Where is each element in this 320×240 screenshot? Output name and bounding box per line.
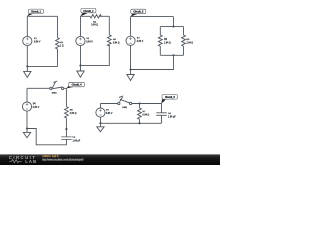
wire below V4 [26,111,28,128]
svg-text:Circuit_2: Circuit_2 [83,10,94,13]
ground C5 [97,123,104,131]
ground C1 [24,66,31,77]
label V4 [33,103,40,109]
resistor R2 [90,15,101,18]
wire top left C5 [100,103,117,105]
svg-text:0.84 Ω: 0.84 Ω [91,25,98,27]
resistor R7 [138,108,142,119]
voltage source V3 [126,36,135,45]
wire below C2 C5 [161,115,163,123]
label C2 [168,113,176,119]
svg-text:0.84 V: 0.84 V [137,41,144,43]
svg-text:0.84 Ω: 0.84 Ω [143,115,150,117]
resistor R6 [65,107,69,118]
node junction C4 [26,127,28,129]
wire top left C2 [80,15,90,17]
label R5 [186,39,193,44]
logo waveform [9,160,21,163]
svg-text:Circuit_1: Circuit_1 [31,11,42,14]
svg-text:0.84 V: 0.84 V [106,113,113,115]
svg-text:SW2: SW2 [122,107,128,109]
voltage source V1 [23,36,32,45]
tag Circuit_5 [161,95,177,104]
wire below V2 [79,46,81,66]
label R1 [60,42,64,48]
ground C3 [127,70,134,81]
voltage source V5 [96,108,105,117]
wire below R7 C5 [138,119,140,123]
voltage source V2 [76,36,85,45]
svg-text:0.84 Ω: 0.84 Ω [113,42,120,44]
node junction C3 [130,68,132,70]
voltage source V4 [22,102,31,111]
wire below V5 [99,117,101,123]
capacitor C2 [156,113,166,116]
label V5 [106,110,113,115]
wire top C1 [27,15,57,17]
wire bottom C3 [131,55,174,69]
wire stem top parallel C3 [172,17,174,27]
svg-text:0.84 Ω: 0.84 Ω [70,113,77,115]
wire top left C4 [27,87,50,89]
wire below V3 [130,45,132,69]
wire left upper C2 [79,16,81,36]
label R7 [143,111,150,117]
wire top C3 [131,16,174,18]
label C1 [73,136,81,142]
label V1 [34,38,41,43]
svg-text:Circuit_5: Circuit_5 [165,96,176,99]
wire left upper C1 [26,16,28,36]
wire bottom jog C4 [27,129,66,145]
switch SW1 [50,81,64,90]
node junction SW2/R7 C5 [138,102,140,104]
label V2 [86,38,93,43]
svg-text:1 Ω: 1 Ω [60,46,64,48]
resistor R5 [182,35,186,46]
label R6 [70,109,77,115]
ground C4 [23,129,30,138]
tag Circuit_3 [130,9,145,17]
node junction C5 [99,122,101,124]
svg-text:http://www.circuitlab.com/c/5p: http://www.circuitlab.com/c/5pwtukrbgbid… [42,158,84,161]
node R7 bottom C5 [138,122,140,124]
resistor R3 [107,35,111,46]
svg-text:0.84 V: 0.84 V [34,41,41,43]
label R3 [113,39,120,45]
capacitor C1 [61,137,71,140]
wire top right C4 [64,87,67,89]
node bottom parallel C3 [172,54,174,56]
switch SW2 [118,96,132,105]
wire bottom C5 [100,122,161,124]
resistor R4 [158,35,162,46]
node junction C1 [26,65,28,67]
wire left upper C4 [26,88,28,102]
wire C2 stem C5 [161,104,163,113]
svg-text:2.84 Ω: 2.84 Ω [164,42,171,44]
wire right upper C4 [65,88,67,106]
svg-text:2.84 Ω: 2.84 Ω [186,42,193,44]
wire top right C5 [132,103,162,105]
svg-text:Circuit_3: Circuit_3 [133,11,144,14]
wire below R6 C4 [65,118,67,137]
wire below V1 [26,46,28,67]
tag Circuit_2 [80,8,96,16]
label V3 [137,38,144,43]
svg-text:cshtcu / Lab 5: cshtcu / Lab 5 [42,154,59,158]
wire top right C2 [99,15,109,17]
wire right upper C1 [56,16,58,37]
node junction C2 [79,65,81,67]
svg-text:1.84 µF: 1.84 µF [73,140,81,142]
svg-text:SW1: SW1 [52,93,58,95]
ground C2 [77,66,84,78]
svg-text:1.84 µF: 1.84 µF [168,117,176,119]
resistor R1 [56,38,60,49]
wire left upper C3 [130,17,132,37]
wire bottom C1 [27,49,57,67]
node mid C4 [65,128,67,130]
label R4 [164,38,171,44]
svg-text:Circuit_4: Circuit_4 [72,84,83,87]
tag Circuit_4 [66,82,84,88]
tag Circuit_1 [27,9,43,16]
wire bottom C2 [80,45,109,66]
parallel box wires C3 [160,27,183,56]
svg-text:0.84 V: 0.84 V [86,41,93,43]
wire right upper C2 [108,16,110,35]
node top parallel C3 [172,26,174,28]
wire R7 stem C5 [138,104,140,109]
svg-text:LAB: LAB [25,159,37,164]
svg-text:0.84 V: 0.84 V [33,107,40,109]
CircuitLab logo [9,155,37,164]
label R2 [91,21,98,26]
wire left upper C5 [99,104,101,109]
